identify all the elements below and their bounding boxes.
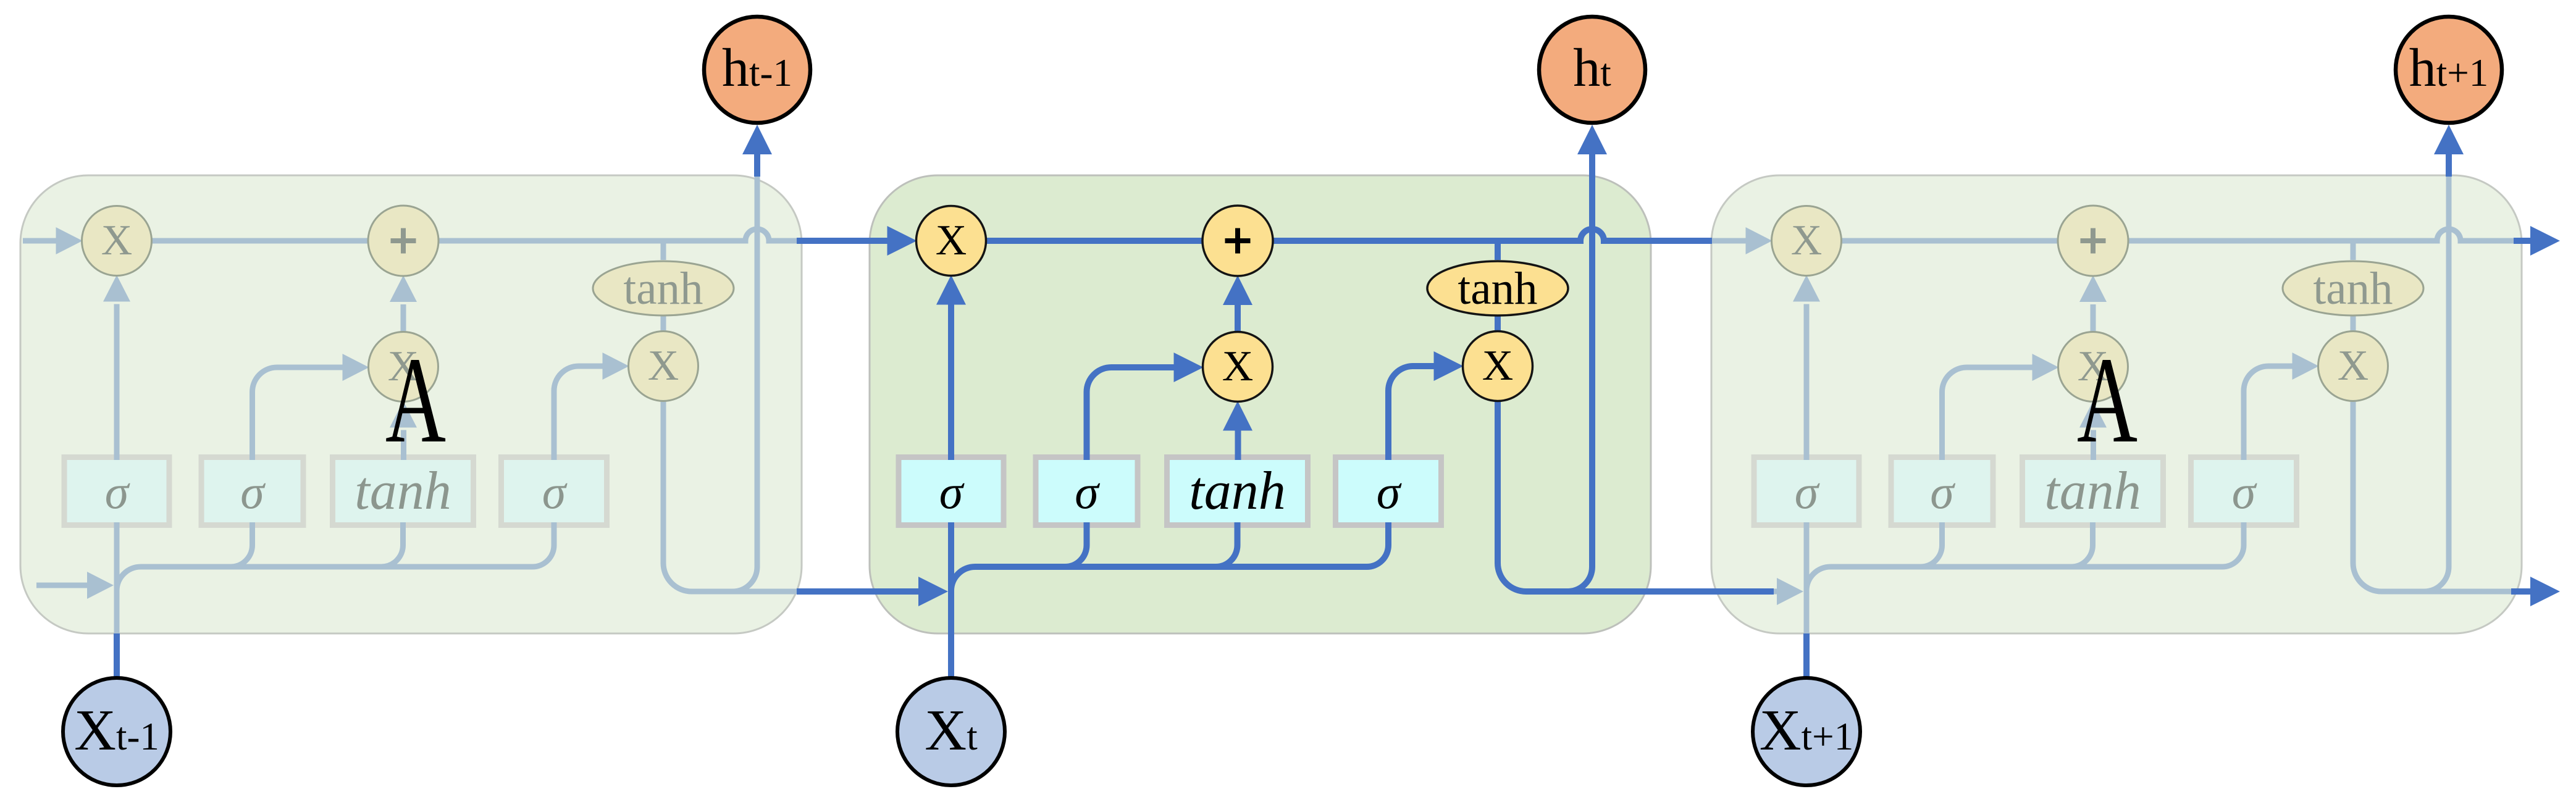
- box border: layer 1, cell t: [896, 454, 1007, 528]
- box border: layer 1, cell t-1: [62, 454, 172, 528]
- svg-text:X: X: [1482, 342, 1514, 390]
- svg-text:X: X: [101, 217, 133, 264]
- node: xt+1 input circle: [1753, 678, 1860, 785]
- wire: C-line from + over hop to cell t+1 right edge: [2127, 229, 2522, 241]
- wire: tanh oval down to output X gate, cell t-1: [661, 314, 666, 334]
- gate: forget multiply X circle, cell t-1: [82, 206, 152, 276]
- wire: candidate tanh output up to X gate, cell t-1: [401, 430, 406, 461]
- box fill and label: layer 1 (sigma), cell t: [902, 460, 1001, 522]
- wire: h-line branch up to h output, cell t-1: [732, 175, 757, 591]
- gate: add + circle, cell t-1: [368, 206, 438, 276]
- svg-text:σ: σ: [1377, 465, 1402, 519]
- wire: dark arrow from cell top to ht circle: [1589, 153, 1595, 177]
- box fill and label: layer 2 (sigma), cell t-1: [204, 460, 301, 522]
- wire: bus from x-input up to gate boxes in cell t+1: [1806, 522, 2244, 591]
- box fill and label: layer 2 (sigma), cell t: [1039, 460, 1135, 522]
- wire: bus branch up into box 3 (tanh) cell t-1: [382, 522, 403, 567]
- wire: output gate sigma to output X gate, cell t-1: [554, 366, 603, 461]
- box border: layer 4, cell t: [1333, 454, 1444, 528]
- svg-text:σ: σ: [240, 465, 266, 519]
- box fill and label: layer 2 (sigma), cell t+1: [1894, 460, 1991, 522]
- svg-text:tanh: tanh: [1458, 263, 1537, 314]
- wire: X gate output up to + gate, cell t+1: [2091, 304, 2096, 333]
- wire: tanh oval down to output X gate, cell t+1: [2351, 314, 2356, 334]
- svg-text:tanh: tanh: [1189, 461, 1285, 521]
- wire: x input vertical through box1 up to forget X gate, cell t: [948, 304, 954, 634]
- wire: output X gate down to h-line and exit right, cell t+1: [2353, 400, 2522, 592]
- wire: dark C-line connector cell t-1 to cell t: [797, 238, 868, 244]
- gate: forget multiply X circle, cell t: [917, 206, 986, 276]
- box border: layer 2, cell t: [1033, 454, 1141, 528]
- box fill and label: layer 3 (tanh), cell t-1: [335, 460, 471, 522]
- box border: layer 4, cell t+1: [2188, 454, 2299, 528]
- wire: X gate output up to + gate, cell t-1: [401, 304, 406, 333]
- wire: C-line entry arrow into cell t: [798, 238, 888, 244]
- wire: C-line entry arrow into cell t+1: [1712, 238, 1747, 244]
- svg-text:X: X: [2338, 342, 2369, 390]
- gate: tanh oval, cell t-1: [593, 261, 734, 315]
- box border: layer 3, cell t-1: [330, 454, 476, 528]
- LSTM cell t+1 background: [1711, 175, 2522, 633]
- wire: x input vertical through box1 up to forget X gate, cell t-1: [114, 304, 120, 634]
- wire: dark arrow from cell top to ht-1 circle: [754, 153, 760, 177]
- box border: layer 3, cell t+1: [2020, 454, 2166, 528]
- svg-text:tanh: tanh: [623, 263, 703, 314]
- wire: h-line branch up to h output, cell t+1: [2424, 175, 2449, 591]
- box fill and label: layer 4 (sigma), cell t: [1338, 460, 1438, 522]
- wire: dark h-line connector cell t to cell t+1: [1630, 588, 1774, 595]
- gate: input multiply X circle, cell t+1: [2058, 332, 2128, 402]
- wire: dark h-line connector cell t-1 to cell t: [797, 588, 868, 595]
- wire: candidate tanh output up to X gate, cell t: [1235, 430, 1241, 461]
- box border: layer 3, cell t: [1164, 454, 1311, 528]
- wire: C-line branch down into tanh oval, cell t: [1495, 241, 1501, 260]
- wire: C-line branch down into tanh oval, cell t+1: [2351, 241, 2356, 260]
- wire: output X gate down to h-line and exit right, cell t: [1498, 400, 1651, 592]
- gate: add + circle, cell t+1: [2058, 206, 2128, 276]
- box fill and label: layer 4 (sigma), cell t-1: [504, 460, 604, 522]
- wire: bus from x-input up to gate boxes in cell t-1: [117, 522, 554, 591]
- gate: output multiply X circle, cell t: [1463, 332, 1533, 401]
- gate: forget multiply X circle, cell t+1: [1772, 206, 1842, 276]
- wire: bus branch up into box 2 (input gate sigma) cell t+1: [1921, 522, 1942, 567]
- svg-text:σ: σ: [939, 465, 965, 519]
- box fill and label: layer 3 (tanh), cell t+1: [2025, 460, 2160, 522]
- node: xt input circle: [897, 678, 1005, 785]
- wire: dark C-line exit arrow at right edge: [2514, 238, 2532, 244]
- svg-text:σ: σ: [1075, 465, 1100, 519]
- wire: dark h-line exit arrow at right edge: [2511, 588, 2532, 595]
- svg-text:X: X: [936, 217, 967, 264]
- wire: dark C-line connector cell t to cell t+1: [1651, 238, 1712, 244]
- wire: h-line entry arrow into cell t: [800, 588, 920, 595]
- wire: bus branch up into box 2 (input gate sigma) cell t-1: [231, 522, 253, 567]
- wire: output gate sigma to output X gate, cell t: [1388, 366, 1435, 461]
- wire: C-line from forget-gate X to + in cell t-1: [151, 238, 370, 244]
- wire: output X gate down to h-line and exit right, cell t-1: [663, 400, 802, 592]
- box border: layer 2, cell t-1: [199, 454, 306, 528]
- wire: input gate sigma output to X gate, cell t+1: [1942, 367, 2033, 461]
- node: ht+1 output circle: [2396, 17, 2502, 123]
- box fill and label: layer 4 (sigma), cell t+1: [2194, 460, 2294, 522]
- node: ht output circle: [1539, 17, 1645, 123]
- svg-text:tanh: tanh: [2044, 461, 2141, 521]
- wire: h-line branch up to h output, cell t: [1567, 175, 1592, 591]
- wire: C-line from forget-gate X to + in cell t+1: [1840, 238, 2060, 244]
- wire: C-line entry arrow into cell t-1: [23, 238, 57, 244]
- gate: output multiply X circle, cell t-1: [629, 332, 699, 401]
- wire: input gate sigma output to X gate, cell t-1: [253, 367, 343, 461]
- gate: add + circle, cell t: [1202, 206, 1273, 276]
- wire: h-line entry arrow into cell t-1: [36, 583, 88, 588]
- wire: dark line from xt+1 circle to cell bottom: [1803, 633, 1810, 677]
- node: xt-1 input circle: [63, 678, 170, 785]
- wire: tanh oval down to output X gate, cell t: [1495, 314, 1501, 334]
- wire: C-line from + over hop to cell t right edge: [1272, 229, 1651, 241]
- box border: layer 2, cell t+1: [1889, 454, 1996, 528]
- gate: output multiply X circle, cell t+1: [2318, 332, 2388, 401]
- node: ht-1 output circle: [704, 17, 810, 123]
- wire: dark line from xt circle to cell bottom: [948, 633, 954, 677]
- LSTM cell t-1 background: [20, 175, 802, 633]
- box border: layer 1, cell t+1: [1752, 454, 1862, 528]
- wire: output gate sigma to output X gate, cell t+1: [2244, 366, 2293, 461]
- wire: input gate sigma output to X gate, cell t: [1087, 367, 1175, 461]
- wire: candidate tanh output up to X gate, cell t+1: [2091, 430, 2096, 461]
- wire: C-line from + over hop to cell t-1 right edge: [437, 229, 802, 241]
- box fill and label: layer 3 (tanh), cell t: [1170, 460, 1305, 522]
- svg-text:A: A: [385, 332, 446, 468]
- box border: layer 4, cell t-1: [498, 454, 610, 528]
- svg-text:X: X: [1222, 343, 1254, 390]
- svg-text:A: A: [2077, 332, 2138, 468]
- wire: x input vertical through box1 up to forget X gate, cell t+1: [1804, 304, 1810, 634]
- svg-text:X: X: [1791, 217, 1823, 264]
- svg-text:σ: σ: [1795, 465, 1820, 519]
- svg-text:tanh: tanh: [2313, 263, 2393, 314]
- LSTM cell t background: [870, 175, 1651, 633]
- wire: bus branch up into box 2 (input gate sigma) cell t: [1065, 522, 1087, 567]
- wire: bus branch up into box 3 (tanh) cell t: [1216, 522, 1238, 567]
- box fill and label: layer 1 (sigma), cell t-1: [67, 460, 167, 522]
- wire: dark line from xt-1 circle to cell bottom: [114, 633, 120, 677]
- wire: X gate output up to + gate, cell t: [1235, 304, 1241, 333]
- wire: bus branch up into box 3 (tanh) cell t+1: [2071, 522, 2093, 567]
- wire: C-line from forget-gate X to + in cell t: [985, 238, 1204, 244]
- gate: input multiply X circle, cell t: [1203, 332, 1273, 402]
- wire: dark arrow from cell top to ht+1 circle: [2446, 153, 2452, 177]
- svg-text:X: X: [648, 342, 679, 390]
- gate: input multiply X circle, cell t-1: [369, 332, 438, 402]
- wire: h-line entry arrow into cell t+1: [1712, 589, 1778, 595]
- wire: C-line branch down into tanh oval, cell t-1: [661, 241, 666, 260]
- box fill and label: layer 1 (sigma), cell t+1: [1757, 460, 1856, 522]
- svg-text:σ: σ: [2232, 465, 2257, 519]
- wire: bus from x-input up to gate boxes in cell t: [951, 522, 1388, 591]
- gate: tanh oval, cell t: [1427, 261, 1568, 315]
- gate: tanh oval, cell t+1: [2283, 261, 2423, 315]
- svg-text:σ: σ: [542, 465, 568, 519]
- svg-text:tanh: tanh: [355, 461, 451, 521]
- svg-text:σ: σ: [105, 465, 130, 519]
- svg-text:σ: σ: [1930, 465, 1955, 519]
